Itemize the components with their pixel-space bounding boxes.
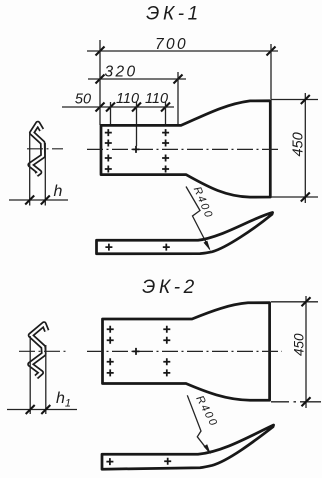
dimension 320 line <box>88 78 186 80</box>
profile2 left extension <box>29 336 31 414</box>
450 dimension line part1 <box>304 93 306 203</box>
svg-text:450: 450 <box>291 132 307 156</box>
h1 tick right <box>41 405 50 414</box>
hole cross c2r4 <box>162 166 169 173</box>
tick at x110.5 <box>106 103 115 112</box>
profile section EK-1 white core <box>30 124 43 175</box>
hole cross center <box>133 146 140 153</box>
hole cross p2 c1r1 <box>107 326 114 333</box>
h1 tick left <box>26 405 35 414</box>
svg-text:110: 110 <box>116 91 139 107</box>
R400 leader part2 <box>187 395 210 453</box>
h tick right <box>41 196 50 205</box>
tick at x100 <box>96 103 105 112</box>
tick at x165.5 <box>161 103 170 112</box>
extension line x165.5 <box>165 102 167 126</box>
dimension h line <box>9 199 68 201</box>
450 tick bottom part1 <box>301 193 310 202</box>
450 tick bottom part2 <box>302 397 311 406</box>
profile section EK-2 white core <box>30 324 47 377</box>
centerline part2 plan <box>87 350 282 352</box>
R400 leader part1 <box>186 187 210 250</box>
part EK-1 plan outline <box>101 101 270 197</box>
svg-text:ЭК-1: ЭК-1 <box>146 4 202 25</box>
hole cross p2 c2r3 <box>163 358 170 365</box>
dimension 700 line <box>87 50 278 52</box>
hole cross c2r3 <box>162 155 169 162</box>
hole cross c1r2 <box>105 140 112 147</box>
strip2 cross a <box>106 458 113 465</box>
svg-text:450: 450 <box>292 333 307 356</box>
h tick left <box>25 196 34 205</box>
450 tick top part2 <box>302 297 311 306</box>
hole cross c1r4 <box>105 166 112 173</box>
part EK-2 plan outline <box>103 303 270 401</box>
hole cross p2 c2r2 <box>163 337 170 344</box>
svg-text:ЭК-2: ЭК-2 <box>142 277 198 298</box>
dimension h1 line <box>7 409 77 411</box>
450 tick top part1 <box>301 95 310 104</box>
tick at x136.5 <box>132 103 141 112</box>
extension line x178 <box>177 72 179 126</box>
dimension 700 tick left <box>96 47 105 56</box>
side strip EK-2 <box>102 425 274 469</box>
strip2 cross b <box>164 458 171 465</box>
side strip EK-1 <box>97 213 273 254</box>
profile2 right extension <box>45 345 47 414</box>
450 bottom extension part2 dashdot <box>271 401 321 403</box>
profile1 right extension <box>44 143 46 206</box>
centerline part1 plan <box>87 148 278 150</box>
profile section EK-2 black <box>30 324 47 377</box>
dimension 320 tick right <box>174 75 183 84</box>
dimension 320 tick left <box>96 75 105 84</box>
dimension 700 tick right <box>267 47 276 56</box>
hole cross c1r3 <box>105 155 112 162</box>
450 bottom extension part1 <box>271 196 318 198</box>
hole cross p2 c1r3 <box>107 358 114 365</box>
hole cross c1r1 <box>105 129 112 136</box>
svg-text:110: 110 <box>145 91 168 107</box>
hole cross p2 c2r1 <box>163 326 170 333</box>
R400 arrowhead part2 <box>204 444 211 454</box>
450 dimension line part2 <box>305 296 307 408</box>
R400 arrowhead part1 <box>204 241 211 251</box>
svg-text:320: 320 <box>104 64 137 81</box>
strip1 cross a <box>105 244 112 251</box>
450 top extension part2 <box>271 301 318 303</box>
extension line x110.5 <box>110 102 112 126</box>
450 top extension part1 <box>271 99 318 101</box>
hole cross p2 c2r4 <box>163 369 170 376</box>
hole cross p2 c1r4 <box>107 369 114 376</box>
strip1 cross b <box>163 244 170 251</box>
hole cross p2 c1r2 <box>107 337 114 344</box>
svg-text:700: 700 <box>155 36 188 53</box>
hole cross p2 center <box>133 348 140 355</box>
profile1 left extension <box>29 134 31 206</box>
extension line x136.5 <box>136 102 138 146</box>
extension line x100 <box>99 40 101 125</box>
profile section EK-1 black <box>30 124 43 175</box>
svg-text:50: 50 <box>75 92 91 108</box>
extension line x271 <box>270 44 272 99</box>
svg-text:h: h <box>54 183 63 200</box>
profile1 centerline <box>27 148 63 150</box>
hole cross c2r2 <box>162 140 169 147</box>
profile2 centerline <box>19 350 66 352</box>
dimension 50-110-110 line <box>62 106 174 108</box>
hole cross c2r1 <box>162 129 169 136</box>
